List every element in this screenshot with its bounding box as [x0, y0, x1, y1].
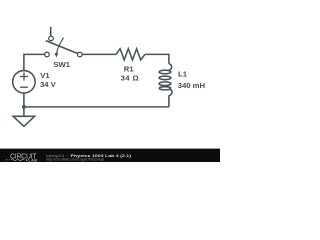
- svg-text:V1: V1: [40, 71, 50, 80]
- svg-text:SW1: SW1: [53, 60, 70, 69]
- svg-text:34 Ω: 34 Ω: [121, 74, 139, 83]
- svg-text:R1: R1: [124, 64, 135, 73]
- svg-text:http://circuitlab.com/c/qp87h9: http://circuitlab.com/c/qp87h93zmq8: [46, 158, 104, 162]
- svg-text:340 mH: 340 mH: [178, 81, 206, 90]
- svg-text:34 V: 34 V: [40, 80, 57, 89]
- svg-text:L1: L1: [178, 70, 188, 79]
- svg-text:LAB: LAB: [28, 158, 37, 162]
